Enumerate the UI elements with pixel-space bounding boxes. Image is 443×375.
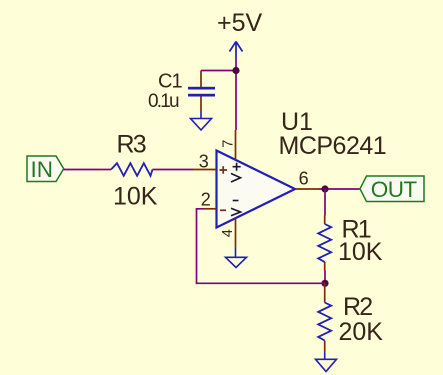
svg-text:0.1u: 0.1u <box>148 91 179 112</box>
resistor R2 top pin <box>324 283 326 302</box>
junction dot at feedback node <box>321 280 328 287</box>
svg-text:7: 7 <box>221 140 237 148</box>
op-amp pin 4 <box>235 218 237 248</box>
op-amp pin 2 name minus marker <box>220 209 226 211</box>
wire R3 to op-amp pin 3 <box>153 169 194 171</box>
svg-text:4: 4 <box>220 229 236 237</box>
ground symbol under C1 <box>191 112 212 131</box>
svg-text:10K: 10K <box>113 182 158 210</box>
junction dot at output node <box>321 185 328 192</box>
svg-text:+5V: +5V <box>217 9 263 37</box>
wire junction to C1 <box>201 70 236 72</box>
capacitor C1 bottom pin <box>200 97 202 112</box>
op-amp pin 3 <box>193 169 217 171</box>
resistor R2 body zigzag <box>318 303 331 341</box>
op-amp pin 4 name V- <box>231 201 241 216</box>
wire output node down to R1 <box>324 189 326 216</box>
wire R1 to mid node <box>324 271 326 284</box>
label OUT flag <box>360 176 424 202</box>
svg-text:20K: 20K <box>339 318 384 346</box>
capacitor C1 top pin <box>200 71 202 88</box>
wire +5V down to op-amp pin 7 <box>235 71 237 131</box>
op-amp pin 7 name V+ <box>231 163 241 182</box>
resistor R2 bottom pin <box>324 341 326 352</box>
svg-text:2: 2 <box>201 190 211 210</box>
junction dot at +5V node <box>232 67 239 74</box>
svg-text:OUT: OUT <box>371 177 418 202</box>
svg-text:R3: R3 <box>117 130 146 158</box>
resistor R1 top pin <box>324 216 326 225</box>
svg-text:C1: C1 <box>158 71 182 93</box>
op-amp pin 2 <box>204 208 217 210</box>
capacitor C1 plates <box>188 87 215 97</box>
svg-text:6: 6 <box>299 169 309 189</box>
svg-text:3: 3 <box>199 152 209 172</box>
wire IN to R3 <box>64 169 100 171</box>
op-amp pin 6 <box>295 188 319 190</box>
power symbol +5V arrow <box>230 42 243 59</box>
label IN flag <box>27 156 64 182</box>
svg-text:10K: 10K <box>338 238 383 266</box>
resistor R3 body zigzag <box>111 163 153 176</box>
wire feedback from pin 2 <box>197 209 326 283</box>
svg-text:IN: IN <box>31 157 54 182</box>
svg-text:MCP6241: MCP6241 <box>279 132 387 160</box>
wire +5V vertical stub <box>235 58 237 71</box>
wire op-amp output to OUT <box>319 188 360 190</box>
resistor R1 bottom pin <box>324 262 326 271</box>
svg-text:R2: R2 <box>343 293 372 321</box>
ground symbol under op-amp pin 4 <box>226 248 247 268</box>
op-amp pin 3 name plus marker <box>220 166 228 174</box>
ground symbol under R2 <box>316 352 337 372</box>
resistor R1 body zigzag <box>318 224 331 262</box>
resistor R3 left lead wire <box>100 169 112 171</box>
op-amp pin 7 <box>235 130 237 160</box>
op-amp U1 triangle body <box>217 151 296 228</box>
